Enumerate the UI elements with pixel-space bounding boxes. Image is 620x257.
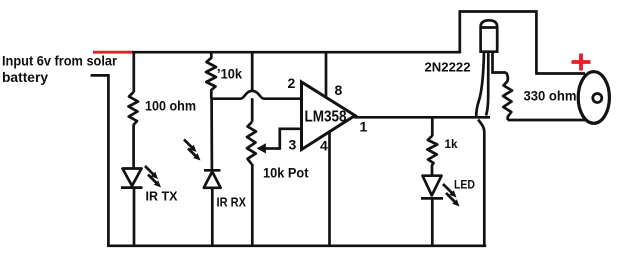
top rail wire <box>132 51 460 54</box>
svg-text:1: 1 <box>360 118 368 134</box>
svg-text:8: 8 <box>335 82 343 98</box>
svg-text:IR TX: IR TX <box>146 189 179 203</box>
potentiometer 10k zigzag <box>247 122 256 164</box>
wire rail to 100 ohm <box>132 52 135 92</box>
resistor 1k <box>427 136 437 166</box>
IR TX emission arrows <box>145 166 161 188</box>
LED D1 <box>421 176 443 199</box>
svg-text:100 ohm: 100 ohm <box>145 99 196 114</box>
wire 1k to LED <box>431 166 434 176</box>
svg-text:2N2222: 2N2222 <box>425 60 471 75</box>
IR RX incoming arrows <box>184 140 201 161</box>
transistor collector lead wire <box>493 52 507 73</box>
wire 10k to op-amp pin 2 with hump <box>211 91 301 99</box>
svg-text:1k: 1k <box>445 137 458 151</box>
svg-text:LED: LED <box>454 178 475 192</box>
wire rail to pot (upper part, broken by hump) <box>251 52 254 91</box>
wire wiper to op-amp pin 3 <box>280 129 302 150</box>
transistor Q1 2N2222 case <box>481 20 498 51</box>
wire 330 ohm to speaker bottom <box>508 119 586 122</box>
resistor 330 ohm (with leads) <box>503 73 512 121</box>
transistor emitter lead (above output wire) <box>486 52 488 116</box>
wire output to 1k <box>431 117 434 136</box>
wire hump gap to pot top <box>251 98 254 122</box>
IR TX LED diode <box>121 169 143 188</box>
speaker body <box>578 72 609 124</box>
wire op-amp output pin 1 <box>354 116 490 119</box>
red plus terminal <box>572 54 591 71</box>
wire IR TX to ground <box>133 188 136 246</box>
wire IR RX to ground <box>211 188 214 246</box>
op-amp U1 LM358 triangle <box>302 82 356 150</box>
LED emission arrows <box>443 184 460 207</box>
rail jog wire over transistor <box>460 12 537 74</box>
svg-text:4: 4 <box>320 138 328 154</box>
wire junction to IR RX <box>210 99 213 171</box>
wire 100 ohm to IR TX <box>132 125 135 169</box>
svg-text:3: 3 <box>289 137 297 153</box>
transistor base lead wire <box>476 52 484 117</box>
wire pot to ground <box>251 164 254 246</box>
svg-text:LM358: LM358 <box>305 109 347 126</box>
red positive supply segment <box>93 51 134 54</box>
resistor 10k (with top lead) <box>206 52 216 98</box>
battery negative bracket wire <box>91 75 109 245</box>
wire to speaker top <box>535 72 585 75</box>
svg-text:’10k: ’10k <box>217 66 242 82</box>
bottom rail (ground) wire <box>107 244 486 247</box>
pot wiper arrow <box>257 143 280 153</box>
resistor 100 ohm <box>129 92 139 125</box>
label input supply text <box>2 54 118 85</box>
wire LED to ground <box>431 198 434 245</box>
svg-text:IR RX: IR RX <box>217 195 247 209</box>
svg-text:330 ohm: 330 ohm <box>524 88 577 104</box>
svg-text:battery: battery <box>2 70 49 85</box>
svg-text:10k Pot: 10k Pot <box>263 166 309 181</box>
IR RX photodiode <box>204 170 221 188</box>
svg-text:Input 6v from solar: Input 6v from solar <box>2 54 118 69</box>
transistor emitter lead to ground <box>478 120 484 246</box>
wire pin 4 to ground <box>328 132 331 246</box>
svg-text:2: 2 <box>288 75 296 91</box>
wire rail to pin 8 <box>325 53 328 98</box>
